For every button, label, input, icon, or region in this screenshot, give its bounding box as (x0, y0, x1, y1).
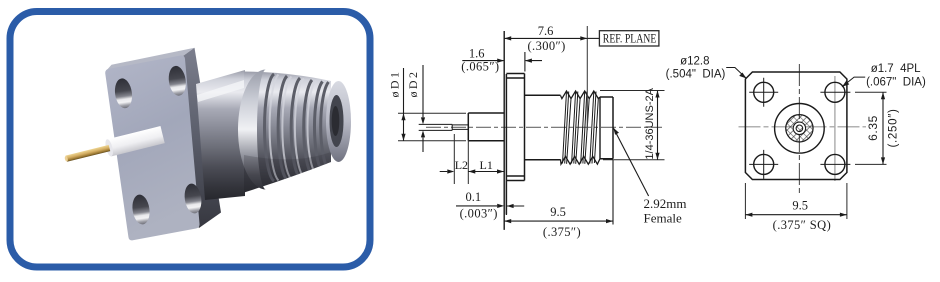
svg-text:6.35: 6.35 (866, 115, 880, 141)
thread dim extension lines (600, 91, 665, 160)
dia D1 extension lines (398, 113, 466, 141)
dimension 0.1 recess (456, 181, 524, 216)
3D nut bore (330, 95, 344, 147)
3D nut bore core (332, 106, 340, 136)
svg-text:Female: Female (644, 210, 682, 225)
3D mounting hole bottom-left (131, 193, 152, 225)
thread 1/4-36UNS-2A dimension line (657, 91, 659, 160)
dia 1.7 leader (842, 77, 865, 87)
6.35 extension lines (855, 92, 887, 164)
svg-text:2.92mm: 2.92mm (644, 196, 687, 211)
thread shoulder (599, 97, 601, 159)
dia 12.8 leader (726, 68, 746, 79)
svg-text:(.300″): (.300″) (527, 39, 565, 53)
3D nut groove arcs (264, 74, 328, 181)
mounting hole top-right (825, 82, 845, 102)
thread flank lines (563, 92, 599, 164)
3D flange top face sliver (107, 48, 195, 70)
hole cross bottom-left (749, 150, 778, 179)
dimension 9.5 body length (504, 160, 613, 225)
dia D2 dimension line (422, 65, 424, 152)
svg-text:(.375″ SQ): (.375″ SQ) (773, 218, 832, 232)
svg-text:(.003″): (.003″) (460, 207, 498, 221)
svg-text:1/4-36UNS-2A: 1/4-36UNS-2A (644, 87, 656, 159)
dimension 1.6 flange thickness (462, 52, 542, 72)
svg-text:0.1: 0.1 (465, 190, 481, 204)
hole cross top-left (749, 78, 778, 107)
2.92mm Female leader (613, 128, 648, 196)
svg-text:ø12.8: ø12.8 (680, 56, 709, 68)
mating end tube (600, 97, 613, 159)
socket inner circle (796, 125, 803, 132)
3D nut bottom shade (244, 152, 331, 193)
3D mounting hole top-left (113, 77, 134, 109)
3D flange right side face (183, 48, 221, 228)
barrel behind flange (525, 95, 561, 160)
right holes vertical centerline (834, 76, 836, 181)
6.35 dimension line (882, 92, 884, 164)
blue rounded border frame (10, 12, 370, 268)
svg-text:(.065″): (.065″) (461, 59, 499, 73)
mounting hole bottom-left (754, 154, 774, 174)
svg-text:7.6: 7.6 (538, 24, 554, 38)
svg-text:(.250″): (.250″) (888, 108, 900, 147)
3D nut ridge highlights (270, 75, 316, 181)
3D small cylinder highlight (197, 80, 244, 102)
centerline side view (426, 126, 662, 128)
svg-text:(.504" DIA): (.504" DIA) (666, 68, 726, 80)
svg-text:9.5: 9.5 (792, 199, 808, 213)
svg-text:(.067" DIA): (.067" DIA) (866, 76, 926, 88)
hole cross bottom-right (820, 163, 850, 165)
rear thin tube (dia D2) (419, 124, 453, 130)
thread crest zigzag bottom (561, 156, 601, 164)
side flange outline (506, 74, 524, 215)
crosshatch fill (786, 115, 813, 142)
hole cross top-right (820, 91, 850, 93)
3D flange front face (105, 55, 199, 240)
REF. PLANE box and connector (587, 37, 599, 39)
svg-text:ø1.7 4PL: ø1.7 4PL (871, 63, 921, 75)
3D nut end cap (326, 81, 351, 162)
svg-text:REF. PLANE: REF. PLANE (603, 31, 657, 45)
dimension 7.6 to ref plane (504, 37, 587, 39)
svg-text:øD1: øD1 (388, 70, 402, 98)
3D mounting hole bottom-right (183, 183, 203, 215)
rear thin tube step section (452, 125, 468, 129)
3D mounting hole top-right (167, 65, 188, 97)
svg-text:(.375″): (.375″) (543, 225, 581, 239)
front view horizontal centerline (739, 126, 867, 128)
dielectric hatched circle (786, 115, 813, 142)
svg-text:L2: L2 (455, 158, 468, 172)
socket circle (793, 122, 805, 134)
mounting hole bottom-right (825, 154, 845, 174)
3D rear small cylinder (196, 70, 245, 200)
rear tube (dia D1) (468, 113, 504, 141)
9.5 SQ dimension line (745, 214, 847, 216)
svg-text:L1: L1 (480, 158, 493, 172)
3D coupling nut body (244, 72, 331, 193)
interface outer circle (775, 104, 825, 154)
svg-text:øD2: øD2 (406, 70, 420, 98)
thread crest zigzag top (561, 91, 601, 99)
side flange mounting face line (503, 31, 505, 230)
flange square outline (745, 72, 847, 180)
3D gold center pin (64, 145, 110, 162)
front view vertical centerline (798, 64, 800, 196)
ref plane extension line (586, 26, 588, 130)
9.5 SQ extension lines (745, 183, 847, 219)
mounting hole top-left (754, 82, 774, 102)
L2 L1 extension lines (454, 134, 468, 184)
svg-text:9.5: 9.5 (550, 205, 566, 219)
3D white dielectric tube (104, 126, 165, 157)
L2 L1 dimension lines (440, 171, 504, 173)
dia D1 dimension line (403, 68, 405, 141)
3D nut left rim face (238, 70, 266, 190)
